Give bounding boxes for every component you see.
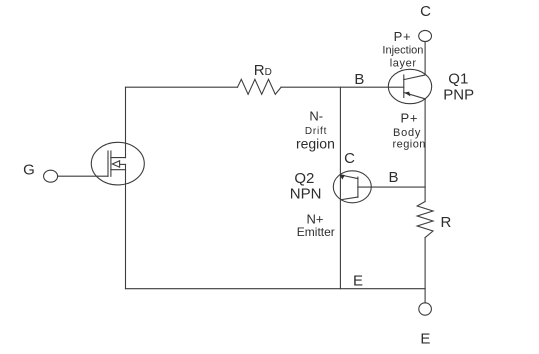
wire Q1 collector down to resistor R [424, 99, 426, 202]
resistor RD [238, 79, 282, 94]
mosfet M1 source mid line [120, 163, 126, 165]
svg-text:B: B [354, 71, 364, 88]
wire bottom horizontal (E rail) [126, 288, 426, 290]
transistor Q2 body circle [333, 171, 371, 203]
wire left vertical drain segment [125, 87, 127, 157]
svg-text:P+: P+ [400, 111, 418, 126]
wire top-right horizontal (RD to Q1 base, node B) [281, 86, 404, 88]
svg-text:RD: RD [254, 62, 272, 79]
mosfet M1 gate bar [107, 151, 109, 176]
svg-text:G: G [23, 162, 35, 179]
svg-text:P+: P+ [394, 29, 412, 44]
wire gate lead from G terminal to MOSFET [58, 175, 109, 177]
transistor Q2 arrowhead [340, 174, 345, 179]
svg-text:Emitter: Emitter [297, 225, 335, 239]
transistor Q2 upper diagonal [341, 175, 358, 179]
svg-text:region: region [296, 136, 335, 152]
svg-text:NPN: NPN [290, 186, 322, 203]
svg-text:C: C [344, 150, 355, 167]
wire left vertical source segment down to bottom wire [125, 165, 127, 289]
svg-text:Injection: Injection [382, 44, 423, 56]
svg-text:Body: Body [393, 127, 421, 139]
terminal circle C [419, 30, 432, 41]
svg-text:B: B [388, 169, 398, 186]
terminal circle G [44, 170, 58, 182]
transistor Q2 base bar [357, 177, 359, 197]
svg-text:layer: layer [390, 57, 417, 69]
wire C terminal to Q1 emitter [424, 42, 426, 75]
transistor Q1 base bar [403, 75, 405, 98]
transistor Q1 collector diagonal [404, 93, 426, 99]
wire node B vertical down through Q2 to bottom rail [339, 87, 341, 289]
resistor R [417, 202, 433, 238]
svg-text:region: region [393, 139, 426, 151]
wire Q2 base to right rail [358, 186, 425, 188]
svg-text:N-: N- [309, 109, 323, 124]
mosfet M1 body-diode arrow (open triangle) [112, 161, 119, 168]
svg-text:E: E [420, 331, 430, 348]
transistor Q1 emitter diagonal [404, 75, 426, 80]
svg-text:R: R [441, 214, 452, 231]
mosfet M1 channel bar [110, 151, 112, 176]
mosfet M1 drain stub [111, 157, 126, 159]
wire top-left horizontal (MOSFET drain to RD) [126, 86, 238, 88]
mosfet M1 body ellipse [91, 142, 144, 185]
svg-text:PNP: PNP [443, 87, 474, 104]
svg-text:E: E [353, 272, 363, 289]
transistor Q2 lower diagonal [341, 197, 358, 200]
svg-text:C: C [420, 3, 431, 20]
wire below resistor R to E terminal [424, 238, 426, 303]
svg-text:Q1: Q1 [448, 70, 468, 87]
transistor Q1 arrowhead [404, 92, 410, 97]
svg-text:Q2: Q2 [294, 170, 314, 187]
mosfet M1 source bottom stub [111, 169, 126, 171]
transistor Q1 body circle [388, 69, 431, 103]
terminal circle E [419, 303, 432, 315]
